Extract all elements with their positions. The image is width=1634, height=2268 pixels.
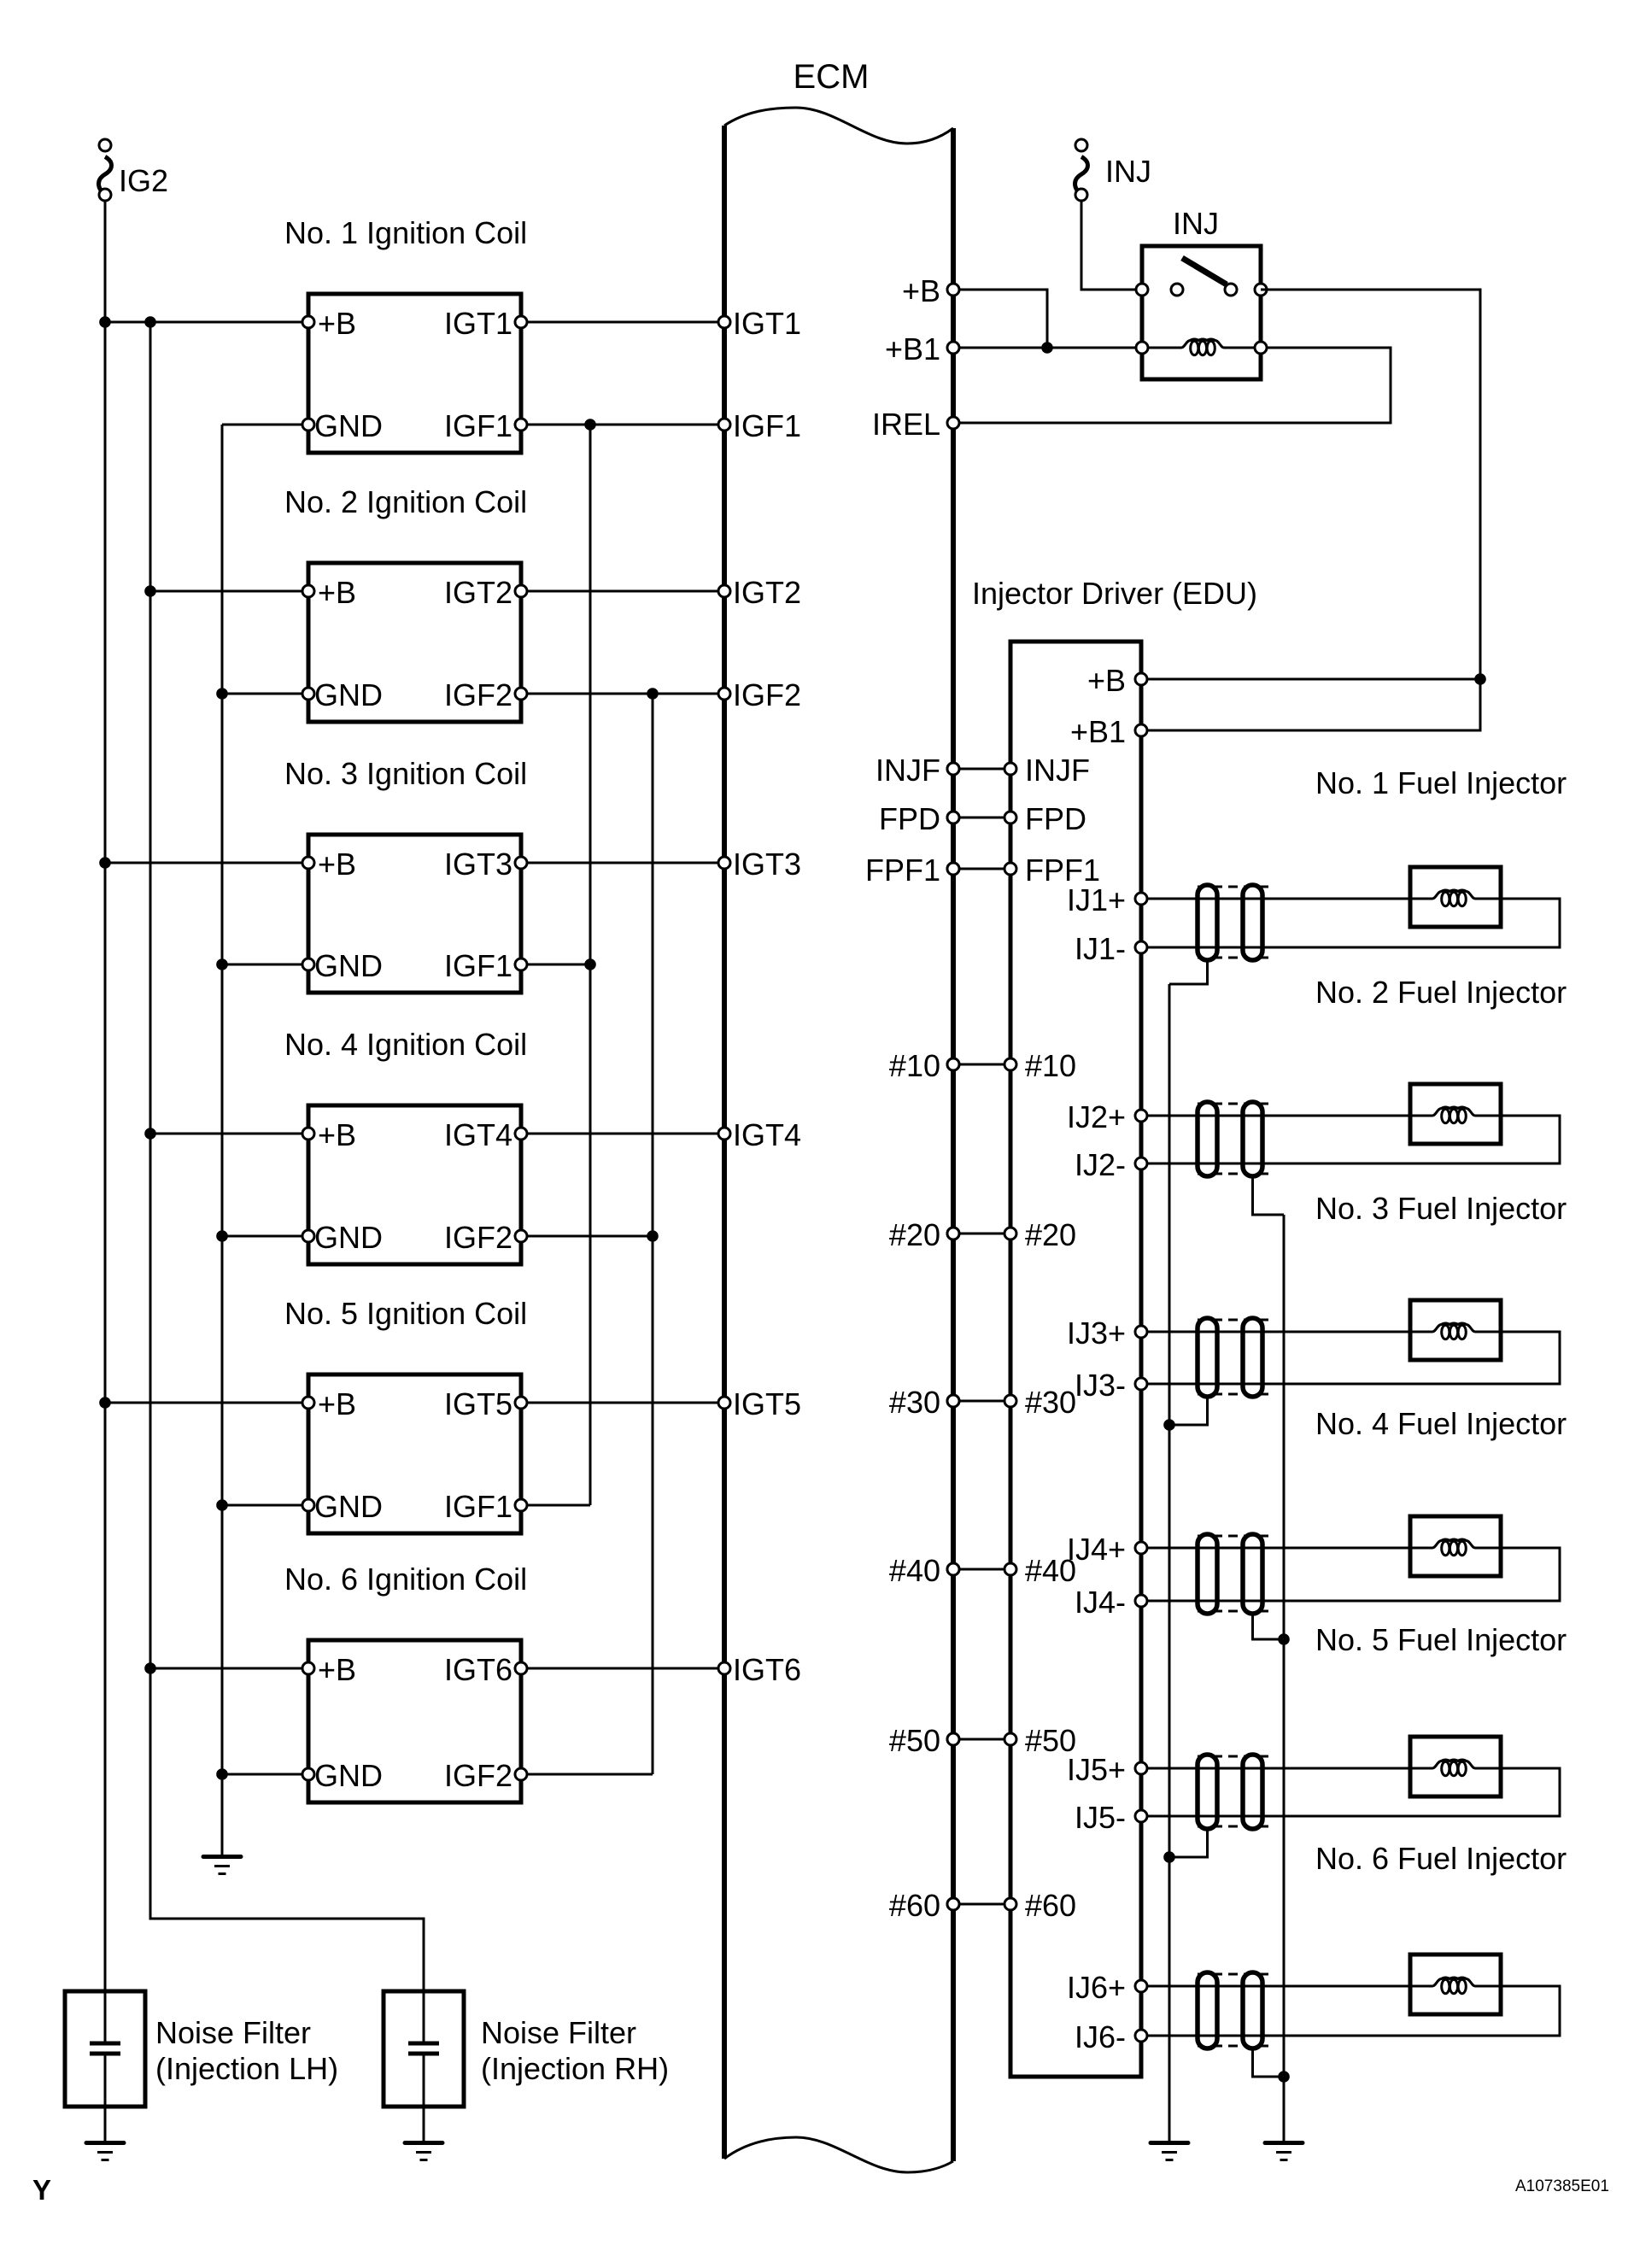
relay pin switch right (1255, 284, 1267, 296)
wire IGT4 coil to ECM (521, 1133, 724, 1135)
wire EDU +B (1141, 678, 1480, 681)
wire GND of coil 5 to ground bus (222, 1504, 308, 1507)
junction shield bus B / injector 6 (1278, 2071, 1290, 2083)
relay switch contact circles (1171, 284, 1237, 296)
svg-text:IJ3+: IJ3+ (1067, 1316, 1126, 1351)
wire GND of coil 6 to ground bus (222, 1773, 308, 1776)
injector 4 coil winding (1410, 1547, 1432, 1550)
pin +B of coil 3 (302, 857, 314, 869)
EDU pin IJ3- (1135, 1378, 1147, 1390)
ECM pin FPF1 (947, 863, 959, 875)
wire injector 5 return loop (1141, 1768, 1560, 1816)
junction IGF2 bus / coil 4 (647, 1230, 659, 1242)
svg-text:No. 2 Fuel Injector: No. 2 Fuel Injector (1315, 975, 1567, 1010)
wire shield drain injector 4 (1253, 1614, 1285, 1639)
ECM pin IGT3 (718, 857, 730, 869)
wire IGF2 of coil 6 to IGF2 bus (521, 1773, 653, 1776)
No. 3 fuel injector box (1410, 1300, 1501, 1360)
junction shield bus A / injector 5 (1163, 1851, 1175, 1863)
pin +B of coil 1 (302, 316, 314, 328)
svg-text:IGT5: IGT5 (733, 1386, 801, 1421)
svg-text:+B: +B (902, 273, 940, 308)
svg-text:IJ5-: IJ5- (1075, 1800, 1126, 1835)
No. 2 fuel injector box (1410, 1084, 1501, 1144)
svg-text:No. 4 Ignition Coil: No. 4 Ignition Coil (284, 1027, 527, 1062)
ECM pin IGF1 (718, 419, 730, 431)
wire +B feed to coil 4 (150, 1133, 308, 1135)
wire GND of coil 4 to ground bus (222, 1235, 308, 1238)
EDU pin INJF (1004, 763, 1016, 775)
capacitor in noise filter RH (408, 2043, 439, 2141)
EDU pin IJ6- (1135, 2030, 1147, 2042)
wire INJF ECM to EDU (953, 768, 1010, 771)
svg-text:IGT4: IGT4 (444, 1117, 512, 1152)
ignition coil box 1 (308, 294, 521, 453)
svg-text:+B: +B (318, 1117, 356, 1152)
noise filter box RH (384, 1991, 464, 2107)
junction IGF2 bus tap (647, 688, 659, 700)
wire +B feed to coil 1 (105, 321, 308, 324)
ECM pin IGT2 (718, 585, 730, 597)
EDU pin #10 (1004, 1058, 1016, 1070)
EDU pin IJ4- (1135, 1595, 1147, 1607)
svg-text:IGF2: IGF2 (444, 1220, 512, 1255)
svg-text:GND: GND (314, 948, 383, 983)
junction +B bus / coil 6 (144, 1662, 156, 1674)
svg-text:IG2: IG2 (119, 163, 168, 198)
injector 6 coil winding (1410, 1985, 1432, 1988)
twisted pair oval 1 injector 4 (1198, 1534, 1217, 1614)
svg-text:IJ1+: IJ1+ (1067, 882, 1126, 917)
junction +B bus / coil 2 (144, 585, 156, 597)
wire INJ connector to relay switch (1081, 201, 1142, 290)
ignition coil box 3 (308, 835, 521, 993)
twisted pair oval 2 injector 4 (1243, 1534, 1262, 1614)
wire ECM +B1 to relay coil (953, 347, 1142, 349)
svg-text:IGF1: IGF1 (444, 1489, 512, 1524)
pin IGF2 of coil 4 (515, 1230, 527, 1242)
svg-text:Noise Filter: Noise Filter (155, 2015, 311, 2050)
pin IGT1 of coil 1 (515, 316, 527, 328)
wire IGT2 coil to ECM (521, 590, 724, 593)
pin GND of coil 2 (302, 688, 314, 700)
ECM pin #60 (947, 1898, 959, 1910)
twisted pair oval 2 injector 6 (1243, 1972, 1262, 2048)
wire IGF1 bus vertical (589, 425, 592, 1505)
wire shield bus B vertical (1283, 1215, 1286, 2141)
wire GND bus (221, 425, 224, 1855)
twisted pair oval 2 injector 5 (1243, 1755, 1262, 1829)
ECM pin +B (947, 284, 959, 296)
svg-text:Injector Driver (EDU): Injector Driver (EDU) (972, 576, 1257, 611)
svg-text:#10: #10 (1025, 1048, 1076, 1083)
svg-text:#30: #30 (889, 1385, 940, 1420)
wire injector 6 return loop (1141, 1986, 1560, 2036)
ECM right edge (951, 128, 956, 2161)
ECM pin FPD (947, 812, 959, 823)
wire GND of coil 2 to ground bus (222, 693, 308, 695)
twisted pair oval 2 injector 1 (1243, 885, 1262, 960)
wire #40 ECM to EDU (953, 1568, 1010, 1571)
ECM pin IREL (947, 417, 959, 429)
svg-text:+B: +B (318, 306, 356, 341)
EDU pin +B (1135, 673, 1147, 685)
twisted pair oval 2 injector 3 (1243, 1318, 1262, 1397)
svg-text:A107385E01: A107385E01 (1515, 2177, 1609, 2195)
ignition coil box 6 (308, 1640, 521, 1802)
twisted pair shield dashes injector 6 (1198, 1974, 1274, 2046)
wire IJ5+ EDU to injector (1141, 1767, 1410, 1770)
svg-text:+B: +B (318, 575, 356, 610)
twisted pair oval 2 injector 2 (1243, 1102, 1262, 1176)
ECM bottom wavy edge (724, 2137, 953, 2172)
wire IGF1 of coil 3 to IGF1 bus (521, 964, 590, 966)
pin +B of coil 6 (302, 1662, 314, 1674)
svg-text:IGT2: IGT2 (733, 575, 801, 610)
wire shield drain injector 3 (1169, 1397, 1208, 1425)
svg-text:IJ2-: IJ2- (1075, 1147, 1126, 1182)
twisted pair shield dashes injector 1 (1198, 887, 1274, 958)
svg-text:IGT4: IGT4 (733, 1117, 801, 1152)
svg-text:INJ: INJ (1105, 154, 1151, 189)
svg-text:No. 3 Ignition Coil: No. 3 Ignition Coil (284, 756, 527, 791)
wire IJ6+ EDU to injector (1141, 1985, 1410, 1988)
ECM pin #10 (947, 1058, 959, 1070)
pin IGF2 of coil 2 (515, 688, 527, 700)
wire IGT1 coil to ECM (521, 321, 724, 324)
injector 2 coil winding (1410, 1115, 1432, 1117)
twisted pair shield dashes injector 2 (1198, 1104, 1274, 1174)
svg-text:IJ4+: IJ4+ (1067, 1532, 1126, 1567)
svg-text:IJ6+: IJ6+ (1067, 1970, 1126, 2005)
svg-text:IGF2: IGF2 (444, 1758, 512, 1793)
pin GND of coil 4 (302, 1230, 314, 1242)
EDU pin IJ5+ (1135, 1762, 1147, 1774)
No. 1 fuel injector box (1410, 867, 1501, 927)
wire #50 ECM to EDU (953, 1738, 1010, 1741)
wire IG2 feed bus (left) (104, 201, 107, 2042)
wire IGF2 of coil 4 to IGF2 bus (521, 1235, 653, 1238)
EDU pin FPF1 (1004, 863, 1016, 875)
wire IGT5 coil to ECM (521, 1402, 724, 1404)
ignition coil box 5 (308, 1374, 521, 1533)
twisted pair shield dashes injector 3 (1198, 1320, 1274, 1394)
svg-text:IJ2+: IJ2+ (1067, 1099, 1126, 1134)
wire injector 2 return loop (1141, 1116, 1560, 1163)
connector IG2 terminal circles and squiggle (99, 139, 112, 201)
svg-text:IGT5: IGT5 (444, 1386, 512, 1421)
wire IJ3+ EDU to injector (1141, 1331, 1410, 1333)
junction +B bus / coil 4 (144, 1128, 156, 1140)
wire shield drain injector 1 (1169, 960, 1208, 984)
ECM pin #40 (947, 1563, 959, 1575)
wire IJ1+ EDU to injector (1141, 898, 1410, 900)
svg-text:+B1: +B1 (1070, 714, 1126, 749)
injector 1 coil winding (1410, 898, 1432, 900)
ECM pin INJF (947, 763, 959, 775)
svg-text:#60: #60 (1025, 1888, 1076, 1923)
pin IGF1 of coil 1 (515, 419, 527, 431)
EDU pin IJ2- (1135, 1157, 1147, 1169)
wire GND of coil 3 to ground bus (222, 964, 308, 966)
connector INJ terminal circles and squiggle (1075, 139, 1088, 201)
relay INJ box (1142, 246, 1261, 379)
junction +B / supply drop (1474, 673, 1486, 685)
wire IREL to relay coil right (953, 348, 1391, 423)
svg-text:IGT3: IGT3 (733, 847, 801, 882)
ECM pin #20 (947, 1228, 959, 1239)
EDU pin #20 (1004, 1228, 1016, 1239)
pin IGT5 of coil 5 (515, 1397, 527, 1409)
svg-text:FPD: FPD (879, 801, 940, 836)
wire +B feed to coil 3 (105, 862, 308, 864)
relay pin coil right (1255, 342, 1267, 354)
svg-text:#10: #10 (889, 1048, 940, 1083)
ECM pin IGT4 (718, 1128, 730, 1140)
svg-text:+B1: +B1 (885, 331, 940, 366)
No. 4 fuel injector box (1410, 1516, 1501, 1576)
svg-text:No. 6 Ignition Coil: No. 6 Ignition Coil (284, 1562, 527, 1597)
wire #60 ECM to EDU (953, 1903, 1010, 1906)
svg-text:GND: GND (314, 1758, 383, 1793)
ignition coil box 4 (308, 1105, 521, 1264)
svg-text:No. 1 Ignition Coil: No. 1 Ignition Coil (284, 215, 527, 250)
svg-text:IJ4-: IJ4- (1075, 1585, 1126, 1620)
ECM pin IGT6 (718, 1662, 730, 1674)
svg-text:Noise Filter: Noise Filter (481, 2015, 636, 2050)
svg-text:+B: +B (318, 1652, 356, 1687)
junction GND bus / coil 2 (216, 688, 228, 700)
svg-text:+B: +B (318, 1386, 356, 1421)
svg-text:+B: +B (1087, 663, 1126, 698)
junction +B / +B1 line (1041, 342, 1053, 354)
pin GND of coil 6 (302, 1768, 314, 1780)
svg-text:IJ3-: IJ3- (1075, 1368, 1126, 1403)
svg-text:FPF1: FPF1 (865, 853, 940, 888)
capacitor in noise filter LH (90, 2043, 120, 2141)
pin GND of coil 3 (302, 958, 314, 970)
wire IGF2 coil 2 to ECM (521, 693, 724, 695)
pin IGF1 of coil 3 (515, 958, 527, 970)
pin GND of coil 5 (302, 1499, 314, 1511)
wire relay switch output down right side (1141, 290, 1480, 730)
ground shield bus A (1151, 2143, 1188, 2160)
relay pin switch left (1136, 284, 1148, 296)
svg-text:IJ5+: IJ5+ (1067, 1752, 1126, 1787)
wire #10 ECM to EDU (953, 1064, 1010, 1066)
svg-text:GND: GND (314, 1489, 383, 1524)
wire +B feed to coil 6 (150, 1667, 308, 1670)
svg-text:#50: #50 (889, 1723, 940, 1758)
EDU pin FPD (1004, 812, 1016, 823)
noise filter box LH (65, 1991, 145, 2107)
svg-text:No. 2 Ignition Coil: No. 2 Ignition Coil (284, 484, 527, 519)
svg-text:IJ1-: IJ1- (1075, 931, 1126, 966)
junction GND bus / coil 3 (216, 958, 228, 970)
twisted pair shield dashes injector 5 (1198, 1756, 1274, 1826)
svg-text:No. 4 Fuel Injector: No. 4 Fuel Injector (1315, 1406, 1567, 1441)
junction GND bus / coil 5 (216, 1499, 228, 1511)
ECM pin #30 (947, 1395, 959, 1407)
wire IJ4+ EDU to injector (1141, 1547, 1410, 1550)
wire IGF1 of coil 5 to IGF1 bus (521, 1504, 590, 1507)
EDU pin IJ5- (1135, 1810, 1147, 1822)
pin IGF2 of coil 6 (515, 1768, 527, 1780)
svg-text:IGT6: IGT6 (444, 1652, 512, 1687)
injector 5 coil winding (1410, 1767, 1432, 1770)
EDU pin #60 (1004, 1898, 1016, 1910)
EDU pin IJ2+ (1135, 1110, 1147, 1122)
wire ECM +B to +B1 line (953, 290, 1047, 348)
pin IGT4 of coil 4 (515, 1128, 527, 1140)
twisted pair oval 1 injector 1 (1198, 885, 1217, 960)
svg-text:IREL: IREL (872, 407, 940, 442)
twisted pair oval 1 injector 6 (1198, 1972, 1217, 2048)
pin +B of coil 5 (302, 1397, 314, 1409)
junction shield bus B / injector 4 (1278, 1633, 1290, 1645)
svg-text:IGF2: IGF2 (444, 677, 512, 712)
ECM left edge (722, 126, 727, 2159)
svg-text:No. 6 Fuel Injector: No. 6 Fuel Injector (1315, 1841, 1567, 1876)
ground for ignition coils GND bus (203, 1857, 241, 1874)
svg-text:#40: #40 (889, 1553, 940, 1588)
svg-text:(Injection LH): (Injection LH) (155, 2051, 338, 2086)
svg-text:ECM: ECM (794, 58, 870, 96)
EDU pin #50 (1004, 1733, 1016, 1745)
pin GND of coil 1 (302, 419, 314, 431)
svg-text:+B: +B (318, 847, 356, 882)
ECM pin IGT5 (718, 1397, 730, 1409)
ECM pin #50 (947, 1733, 959, 1745)
EDU pin IJ1- (1135, 941, 1147, 953)
ECM pin IGT1 (718, 316, 730, 328)
svg-text:#20: #20 (1025, 1217, 1076, 1252)
pin IGT6 of coil 6 (515, 1662, 527, 1674)
wire +B feed to coil 5 (105, 1402, 308, 1404)
svg-text:IJ6-: IJ6- (1075, 2019, 1126, 2054)
wire shield bus A vertical (1168, 984, 1171, 2141)
svg-text:Y: Y (32, 2174, 51, 2206)
wire IGF1 coil 1 to ECM (521, 424, 724, 426)
svg-text:#20: #20 (889, 1217, 940, 1252)
junction GND bus / coil 4 (216, 1230, 228, 1242)
ECM pin +B1 (947, 342, 959, 354)
svg-text:INJF: INJF (876, 753, 940, 788)
svg-text:#30: #30 (1025, 1385, 1076, 1420)
wire injector 4 return loop (1141, 1548, 1560, 1601)
svg-text:No. 3 Fuel Injector: No. 3 Fuel Injector (1315, 1191, 1567, 1226)
EDU pin IJ1+ (1135, 893, 1147, 905)
EDU pin IJ4+ (1135, 1542, 1147, 1554)
pin IGT2 of coil 2 (515, 585, 527, 597)
relay coil winding (1142, 347, 1181, 349)
ignition coil box 2 (308, 563, 521, 722)
ground shield bus B (1265, 2143, 1303, 2160)
ECM pin #10 (947, 1058, 959, 1070)
ECM pin FPD (947, 812, 959, 823)
injector 3 coil winding (1410, 1331, 1432, 1333)
ECM pin #40 (947, 1563, 959, 1575)
pin +B of coil 2 (302, 585, 314, 597)
junction +B bus / coil 3 (99, 857, 111, 869)
ground noise filter RH (405, 2143, 442, 2160)
wire FPD ECM to EDU (953, 817, 1010, 819)
svg-text:IGT1: IGT1 (733, 306, 801, 341)
wire +B feed to coil 2 (150, 590, 308, 593)
wire #30 ECM to EDU (953, 1400, 1010, 1403)
svg-text:No. 1 Fuel Injector: No. 1 Fuel Injector (1315, 765, 1567, 800)
svg-text:FPD: FPD (1025, 801, 1086, 836)
EDU pin IJ6+ (1135, 1980, 1147, 1992)
junction IGF1 bus tap (584, 419, 596, 431)
svg-text:IGT2: IGT2 (444, 575, 512, 610)
wire IJ2+ EDU to injector (1141, 1115, 1410, 1117)
pin IGT3 of coil 3 (515, 857, 527, 869)
relay pin coil left (1136, 342, 1148, 354)
junction IGF1 bus / coil 3 (584, 958, 596, 970)
svg-text:IGT3: IGT3 (444, 847, 512, 882)
junction +B bus / coil 5 (99, 1397, 111, 1409)
EDU pin #30 (1004, 1395, 1016, 1407)
svg-text:#60: #60 (889, 1888, 940, 1923)
ECM pin #30 (947, 1395, 959, 1407)
wire injector 3 return loop (1141, 1332, 1560, 1384)
svg-text:GND: GND (314, 677, 383, 712)
wire second +B bus (150, 322, 424, 2042)
junction GND bus / coil 6 (216, 1768, 228, 1780)
EDU pin #40 (1004, 1563, 1016, 1575)
svg-text:No. 5 Ignition Coil: No. 5 Ignition Coil (284, 1296, 527, 1331)
relay switch blade (1182, 258, 1227, 284)
pin +B of coil 4 (302, 1128, 314, 1140)
wire GND of coil 1 to ground bus (222, 424, 308, 426)
EDU pin +B1 (1135, 724, 1147, 736)
wire injector 1 return loop (1141, 899, 1560, 947)
wire FPF1 ECM to EDU (953, 868, 1010, 870)
wire shield drain injector 2 (1253, 1176, 1285, 1215)
svg-text:IGF1: IGF1 (733, 408, 801, 443)
wire IGT6 coil to ECM (521, 1667, 724, 1670)
Injector Driver EDU box (1010, 642, 1141, 2077)
wire #20 ECM to EDU (953, 1233, 1010, 1235)
No. 5 fuel injector box (1410, 1737, 1501, 1796)
svg-text:IGF1: IGF1 (444, 408, 512, 443)
svg-text:No. 5 Fuel Injector: No. 5 Fuel Injector (1315, 1622, 1567, 1657)
svg-text:(Injection RH): (Injection RH) (481, 2051, 669, 2086)
svg-text:INJ: INJ (1173, 206, 1219, 241)
svg-text:IGT6: IGT6 (733, 1652, 801, 1687)
svg-text:IGF2: IGF2 (733, 677, 801, 712)
junction second bus / coil 1 +B (144, 316, 156, 328)
EDU pin IJ3+ (1135, 1326, 1147, 1338)
svg-text:GND: GND (314, 1220, 383, 1255)
svg-text:INJF: INJF (1025, 753, 1090, 788)
svg-text:IGT1: IGT1 (444, 306, 512, 341)
junction shield bus A / injector 3 (1163, 1419, 1175, 1431)
ECM pin #50 (947, 1733, 959, 1745)
wire IGT3 coil to ECM (521, 862, 724, 864)
pin IGF1 of coil 5 (515, 1499, 527, 1511)
ground noise filter LH (86, 2143, 124, 2160)
ECM pin #20 (947, 1228, 959, 1239)
wire shield drain injector 6 (1253, 2048, 1285, 2077)
twisted pair shield dashes injector 4 (1198, 1536, 1274, 1611)
junction IG2 bus / coil 1 +B (99, 316, 111, 328)
No. 6 fuel injector box (1410, 1954, 1501, 2014)
twisted pair oval 1 injector 2 (1198, 1102, 1217, 1176)
ECM top wavy edge (724, 108, 953, 144)
svg-text:GND: GND (314, 408, 383, 443)
